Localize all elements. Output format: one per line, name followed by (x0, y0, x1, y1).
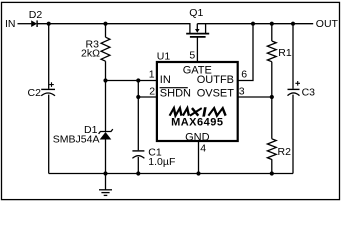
svg-text:R2: R2 (278, 146, 292, 158)
svg-text:Q1: Q1 (189, 7, 203, 19)
capacitor C2 (28, 82, 56, 99)
svg-text:1: 1 (149, 68, 155, 80)
transistor Q1 (186, 7, 209, 37)
svg-text:IN: IN (160, 74, 171, 86)
wire D2 to Q1 drain (top rail left) (37, 24, 190, 34)
wire C3 to ground rail (292, 95, 294, 174)
wire SHDN node to pin 2 (138, 96, 157, 98)
capacitor C1 (132, 146, 175, 168)
wire IN to D2 (18, 23, 32, 25)
junction pin4 ground (196, 171, 200, 175)
junction C1 ground (136, 171, 140, 175)
svg-text:6: 6 (241, 68, 247, 80)
svg-text:OUTFB: OUTFB (197, 74, 234, 86)
junction OUTFB tap (251, 22, 255, 26)
wire Q1 source to OUT (top rail right) (197, 23, 313, 25)
svg-text:MAX6495: MAX6495 (171, 117, 223, 129)
svg-text:OUT: OUT (316, 18, 339, 30)
junction C1 tap top (136, 78, 140, 82)
resistor R3 (81, 24, 110, 62)
svg-text:1.0µF: 1.0µF (148, 156, 175, 168)
junction R3 tap (103, 22, 107, 26)
wire C2 to ground rail (48, 95, 50, 174)
wire OUT rail to C3 (292, 24, 294, 89)
ground (99, 174, 112, 196)
wire pin 3 to OVSET node (237, 96, 271, 98)
junction SHDN node (136, 95, 140, 99)
wire ground rail (49, 173, 293, 175)
resistor R2 (267, 97, 291, 159)
wire R1 to OVSET node (271, 62, 273, 97)
svg-text:2kΩ: 2kΩ (81, 48, 100, 60)
wire R2 to ground rail (271, 159, 273, 173)
junction OVSET node (270, 95, 274, 99)
junction R1 tap (270, 22, 274, 26)
diode D2 (29, 9, 43, 27)
svg-text:C3: C3 (302, 87, 316, 99)
wire C1 to ground rail (137, 157, 139, 174)
diode D1 (53, 124, 113, 146)
svg-text:C2: C2 (28, 87, 42, 99)
junction C3 tap (291, 22, 295, 26)
wire pin 4 GND (198, 141, 200, 174)
svg-text:OVSET: OVSET (197, 88, 235, 100)
junction IN pin node (103, 78, 107, 82)
svg-text:3: 3 (239, 85, 245, 97)
svg-text:4: 4 (200, 142, 206, 154)
svg-text:5: 5 (189, 50, 195, 62)
wire D1 to ground rail (105, 140, 107, 174)
wire down to SHDN row (137, 81, 139, 98)
resistor R1 (267, 24, 291, 62)
op-amp U1 MAX6495 (157, 50, 238, 143)
wire SHDN node down to C1 (137, 97, 139, 150)
svg-text:D2: D2 (29, 9, 43, 21)
wire R3 to IN pin node (105, 61, 107, 131)
svg-text:U1: U1 (157, 50, 171, 62)
junction R2 ground (270, 171, 274, 175)
svg-text:R1: R1 (278, 47, 292, 59)
capacitor C3 (288, 81, 316, 99)
junction C2 tap (47, 22, 51, 26)
svg-text:IN: IN (5, 18, 16, 30)
svg-text:SMBJ54A: SMBJ54A (53, 134, 100, 146)
wire top rail to C2 (48, 24, 50, 89)
svg-text:SHDN: SHDN (160, 88, 191, 100)
wire gate lead pin 5 (196, 37, 198, 62)
junction D1 ground (103, 171, 107, 175)
wire IN node to pin 1 (106, 80, 157, 82)
svg-text:2: 2 (149, 85, 155, 97)
wire pin 6 to OUT rail (237, 24, 253, 81)
